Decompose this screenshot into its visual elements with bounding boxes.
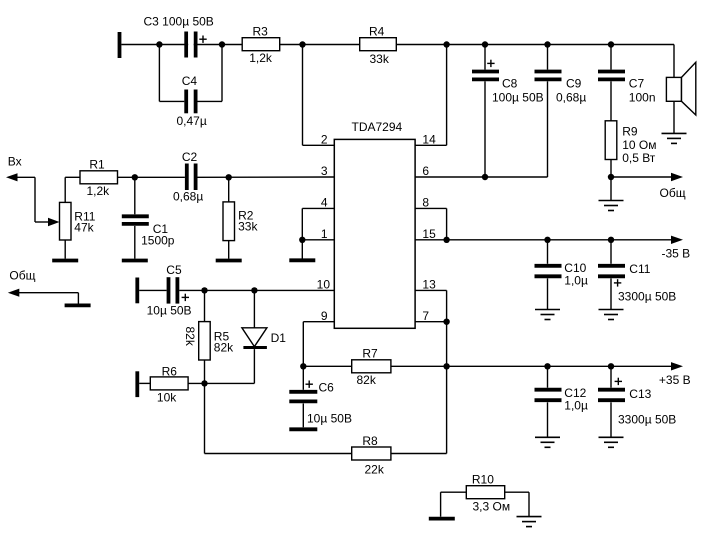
capacitor C4 loop [159, 45, 222, 114]
capacitor C11 [598, 240, 625, 310]
node C2-R2 junction [226, 174, 232, 180]
capacitor C6 [289, 366, 317, 427]
svg-text:3,3 Ом: 3,3 Ом [473, 499, 511, 513]
svg-text:C4: C4 [182, 74, 198, 88]
node R1-C1 junction [132, 174, 138, 180]
svg-text:C3 100µ 50В: C3 100µ 50В [144, 15, 214, 29]
node pin7-pin13 junction [443, 319, 449, 325]
wire pin1 ground drop [301, 240, 303, 259]
svg-text:R9: R9 [622, 125, 638, 139]
svg-text:100µ 50В: 100µ 50В [492, 91, 544, 105]
svg-text:3300µ 50В: 3300µ 50В [618, 290, 676, 304]
svg-text:10 Ом: 10 Ом [622, 138, 656, 152]
svg-text:R1: R1 [89, 158, 105, 172]
node pin14 riser junction [443, 41, 449, 47]
resistor R3 [242, 38, 280, 51]
capacitor C2 [187, 164, 334, 191]
svg-text:8: 8 [422, 196, 429, 210]
capacitor C1 [122, 177, 149, 258]
capacitor C7 [598, 45, 625, 121]
node pin2 riser junction [299, 41, 305, 47]
wire Obsh to ground [19, 293, 79, 304]
node C13 top [608, 363, 614, 369]
svg-text:14: 14 [422, 133, 436, 147]
wire R7 to +35 arrow [391, 365, 672, 367]
svg-text:C9: C9 [566, 77, 582, 91]
svg-text:Общ: Общ [9, 268, 35, 282]
capacitor C5 [139, 277, 334, 303]
wire R9 to node [610, 160, 612, 178]
ground under speaker [662, 133, 687, 143]
pin 1 wire [302, 239, 334, 241]
wire R10 left [441, 492, 467, 517]
node C11 top [608, 237, 614, 243]
node C8 bottom on pin6 wire [482, 174, 488, 180]
svg-text:47k: 47k [74, 220, 94, 234]
svg-text:10k: 10k [157, 390, 177, 404]
node C9 top [544, 41, 550, 47]
wire R10 right [505, 492, 529, 516]
IC U1 TDA7294 [334, 139, 415, 328]
pin 14 wire [415, 45, 447, 146]
svg-text:R8: R8 [362, 434, 378, 448]
svg-text:7: 7 [422, 309, 429, 323]
svg-text:10µ 50В: 10µ 50В [307, 411, 352, 425]
resistor R1 [80, 171, 118, 184]
resistor R9 [605, 121, 617, 160]
ground under C11 [599, 310, 624, 320]
wire top rail corner to speaker [673, 45, 675, 78]
arrow input Obsh [8, 289, 19, 297]
ground under R9 [599, 177, 624, 211]
arrow +35V [671, 362, 683, 370]
node pin1-pin4 junction [299, 237, 305, 243]
svg-text:82k: 82k [357, 373, 377, 387]
resistor R10 [466, 486, 504, 499]
resistor R2 [223, 177, 235, 258]
svg-text:2: 2 [321, 133, 328, 147]
diode D1 [242, 290, 267, 383]
node R5 top [201, 287, 207, 293]
svg-text:C13: C13 [629, 387, 651, 401]
svg-text:0,68µ: 0,68µ [556, 91, 586, 105]
svg-text:D1: D1 [271, 331, 287, 345]
wire +35V rail [303, 365, 351, 367]
wire Obsh arrow right [611, 176, 672, 178]
svg-text:C8: C8 [502, 77, 518, 91]
chassis bar R11 [52, 259, 78, 263]
resistor R4 [360, 38, 397, 51]
svg-text:C7: C7 [629, 77, 645, 91]
wire speaker to ground [673, 101, 675, 133]
svg-text:R6: R6 [162, 365, 178, 379]
svg-text:0,47µ: 0,47µ [177, 114, 207, 128]
wire top rail [121, 44, 674, 46]
chassis bar pin1 [289, 258, 315, 262]
pin 2 wire [303, 45, 335, 146]
terminal R6 input [135, 371, 139, 397]
pin 6 wire [415, 176, 547, 178]
ground under C10 [535, 310, 560, 320]
wire pin7 down to +35 rail [446, 322, 448, 367]
svg-text:100n: 100n [629, 91, 656, 105]
pin 13 wire [415, 290, 447, 321]
node R5-R6-D1 junction [201, 380, 207, 386]
resistor R8 [352, 447, 391, 460]
svg-text:C2: C2 [182, 150, 198, 164]
node C8 top [482, 41, 488, 47]
arrow Obsh right [671, 173, 683, 181]
ground under C12 [535, 437, 560, 447]
node C7 top [608, 41, 614, 47]
pin 9 wire [303, 322, 334, 367]
svg-text:-35 В: -35 В [662, 247, 691, 261]
wire junction down to R8 [205, 383, 352, 453]
svg-text:1: 1 [321, 227, 328, 241]
svg-text:1500p: 1500p [141, 233, 175, 247]
chassis bar C1 [122, 259, 148, 263]
node C3 left junction [156, 41, 162, 47]
svg-text:9: 9 [321, 309, 328, 323]
svg-text:10: 10 [317, 278, 331, 292]
svg-text:13: 13 [422, 278, 436, 292]
node D1 top [251, 287, 257, 293]
svg-text:0,5 Вт: 0,5 Вт [622, 151, 656, 165]
ground under R10 [517, 517, 542, 527]
pin 7 wire [415, 321, 447, 323]
capacitor C8 [472, 45, 499, 178]
node pin9-R7-C6 junction [300, 363, 306, 369]
node +35 rail R7 [443, 363, 449, 369]
svg-text:6: 6 [422, 164, 429, 178]
svg-text:R4: R4 [369, 24, 385, 38]
terminal C5 input [135, 278, 139, 304]
arrow input Vx [6, 173, 18, 181]
arrow -35V [671, 236, 683, 244]
wire R1 to C2 [118, 176, 185, 178]
pin 8 wire [415, 208, 447, 239]
svg-text:TDA7294: TDA7294 [352, 120, 403, 134]
svg-text:Вх: Вх [8, 154, 22, 168]
capacitor C10 [535, 240, 562, 310]
chassis bar R10 [429, 517, 455, 521]
svg-text:C5: C5 [166, 263, 182, 277]
chassis bar R2 [216, 259, 242, 263]
svg-text:22k: 22k [365, 462, 385, 476]
svg-text:33k: 33k [370, 52, 390, 66]
speaker LS [666, 62, 695, 115]
ground under C13 [599, 437, 624, 447]
svg-text:1,2k: 1,2k [249, 51, 273, 65]
wire R11 top riser [65, 177, 80, 202]
capacitor C3 [186, 32, 207, 58]
resistor R7 [352, 360, 391, 373]
svg-text:Общ: Общ [660, 186, 686, 200]
potentiometer R11 [60, 202, 72, 240]
capacitor C9 [535, 45, 562, 178]
svg-text:C6: C6 [319, 380, 335, 394]
terminal C6 bottom [289, 427, 317, 431]
svg-text:3300µ 50В: 3300µ 50В [618, 412, 676, 426]
svg-text:15: 15 [422, 227, 436, 241]
node C10 top [544, 237, 550, 243]
resistor R6 [139, 377, 254, 390]
pin 4 wire [302, 208, 334, 239]
resistor R5 [199, 290, 211, 383]
svg-text:82k: 82k [214, 340, 234, 354]
svg-text:1,0µ: 1,0µ [564, 273, 588, 287]
svg-text:R10: R10 [472, 472, 494, 486]
svg-text:0,68µ: 0,68µ [173, 189, 203, 203]
wire -35V rail [415, 239, 671, 241]
chassis bar Obsh [65, 303, 91, 307]
node -35 rail pin8 [443, 237, 449, 243]
wire input to wiper [17, 177, 49, 222]
svg-text:4: 4 [321, 196, 328, 210]
node C3 right junction [219, 41, 225, 47]
svg-text:1,0µ: 1,0µ [564, 398, 588, 412]
wire R8 right up to rail [391, 366, 447, 453]
svg-text:33k: 33k [238, 220, 258, 234]
svg-text:3: 3 [321, 164, 328, 178]
terminal top-left input [118, 32, 122, 58]
svg-text:R7: R7 [362, 347, 378, 361]
node C12 top [544, 363, 550, 369]
svg-text:82k: 82k [183, 327, 197, 347]
svg-text:10µ 50В: 10µ 50В [147, 303, 192, 317]
wire R11 bottom [64, 240, 66, 259]
arrow wiper R11 [48, 218, 60, 226]
svg-text:1,2k: 1,2k [87, 184, 111, 198]
svg-text:+35 В: +35 В [659, 373, 691, 387]
capacitor C12 [535, 366, 562, 437]
svg-text:R3: R3 [253, 24, 269, 38]
capacitor C13 [598, 366, 625, 437]
svg-text:C11: C11 [629, 262, 650, 276]
node R9 bottom [608, 174, 614, 180]
